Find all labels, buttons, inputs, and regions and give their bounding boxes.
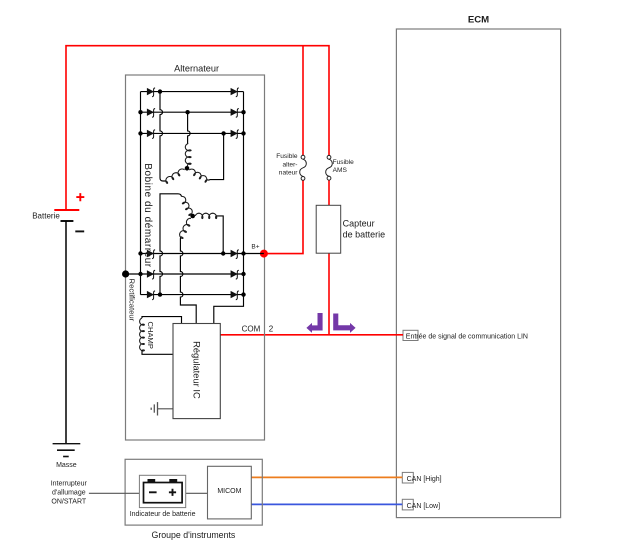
svg-text:Régulateur IC: Régulateur IC [192, 341, 202, 399]
svg-text:Capteur: Capteur [343, 219, 375, 229]
svg-text:AMS: AMS [333, 167, 348, 174]
svg-text:Groupe d'instruments: Groupe d'instruments [151, 530, 235, 540]
svg-text:d'allumage: d'allumage [52, 489, 86, 496]
svg-text:de batterie: de batterie [343, 230, 386, 240]
svg-text:ECM: ECM [468, 15, 489, 26]
svg-text:Batterie: Batterie [32, 211, 60, 220]
svg-text:Masse: Masse [56, 462, 77, 469]
svg-text:CHAMP: CHAMP [146, 321, 155, 348]
svg-text:CAN [Low]: CAN [Low] [407, 503, 441, 510]
svg-text:COM: COM [242, 324, 261, 333]
svg-text:Rectificateur: Rectificateur [127, 279, 136, 322]
svg-text:Bobine du démarreur: Bobine du démarreur [142, 163, 153, 268]
svg-text:2: 2 [269, 324, 274, 333]
svg-text:Fusible: Fusible [276, 153, 298, 160]
svg-text:Entrée de signal de communicat: Entrée de signal de communication LIN [406, 334, 528, 341]
svg-text:Alternateur: Alternateur [174, 63, 219, 73]
svg-text:CAN [High]: CAN [High] [407, 476, 442, 483]
svg-text:Interrupteur: Interrupteur [51, 480, 88, 487]
svg-text:MICOM: MICOM [217, 488, 241, 495]
svg-text:ON/START: ON/START [51, 499, 86, 506]
svg-text:alter-: alter- [282, 161, 297, 168]
svg-text:B+: B+ [251, 244, 259, 251]
svg-text:nateur: nateur [279, 169, 299, 176]
svg-text:Fusible: Fusible [333, 159, 355, 166]
svg-text:Indicateur de batterie: Indicateur de batterie [130, 511, 196, 518]
